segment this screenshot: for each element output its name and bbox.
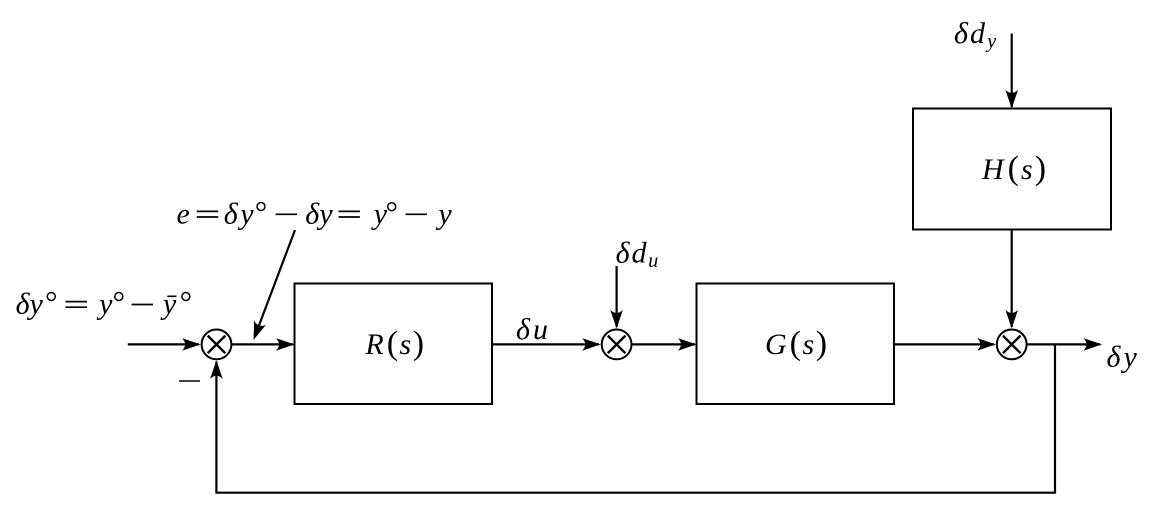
label error equation e = delta y ring minus delta y = y ring minus y — [177, 197, 453, 230]
label input: delta y ring = y ring minus ybar ring — [16, 288, 190, 321]
wire disturbance ddu into S2 — [610, 266, 623, 329]
label ddy disturbance — [954, 17, 996, 53]
wire S2 to G(s) — [632, 338, 697, 351]
summing junction S3 — [997, 330, 1027, 360]
block R(s) — [295, 284, 493, 405]
svg-text:y: y — [985, 31, 996, 53]
pointer arrow from label e to error node — [254, 230, 296, 340]
svg-text:G(s): G(s) — [765, 325, 827, 362]
label minus sign at S1 feedback input — [179, 380, 200, 382]
wire S1 to R(s) — [231, 338, 294, 351]
svg-text:δu: δu — [516, 313, 548, 346]
block G(s) — [697, 284, 895, 405]
wire disturbance ddy into H(s) — [1005, 34, 1018, 109]
svg-text:H(s): H(s) — [981, 150, 1046, 187]
summing junction S1 — [202, 330, 232, 360]
wire R(s) to S2, node du — [492, 338, 601, 351]
svg-text:δd: δd — [954, 17, 986, 50]
svg-text:δy: δy — [16, 288, 44, 321]
label ddu disturbance — [616, 237, 659, 273]
wire H(s) to S3 — [1005, 230, 1018, 329]
label dy output — [1107, 341, 1138, 374]
wire G(s) to S3 — [894, 338, 996, 351]
wire S3 to output dy — [1027, 338, 1102, 351]
svg-text:δy: δy — [224, 197, 254, 230]
svg-text:ȳ: ȳ — [160, 288, 177, 321]
svg-text:δy: δy — [1107, 341, 1138, 374]
svg-text:y: y — [96, 288, 113, 321]
svg-text:u: u — [648, 250, 658, 272]
svg-text:y: y — [435, 197, 452, 230]
block H(s) — [913, 109, 1111, 230]
svg-text:R(s): R(s) — [364, 325, 424, 362]
svg-text:δy: δy — [305, 197, 333, 230]
label du on wire R to S2 — [516, 313, 548, 346]
svg-text:y: y — [371, 197, 388, 230]
summing junction S2 — [602, 330, 632, 360]
wire input reference into S1 — [128, 338, 201, 351]
wire feedback from output node down, across and up into S1 — [210, 344, 1055, 492]
svg-text:δd: δd — [616, 237, 648, 270]
svg-text:e: e — [177, 197, 190, 230]
